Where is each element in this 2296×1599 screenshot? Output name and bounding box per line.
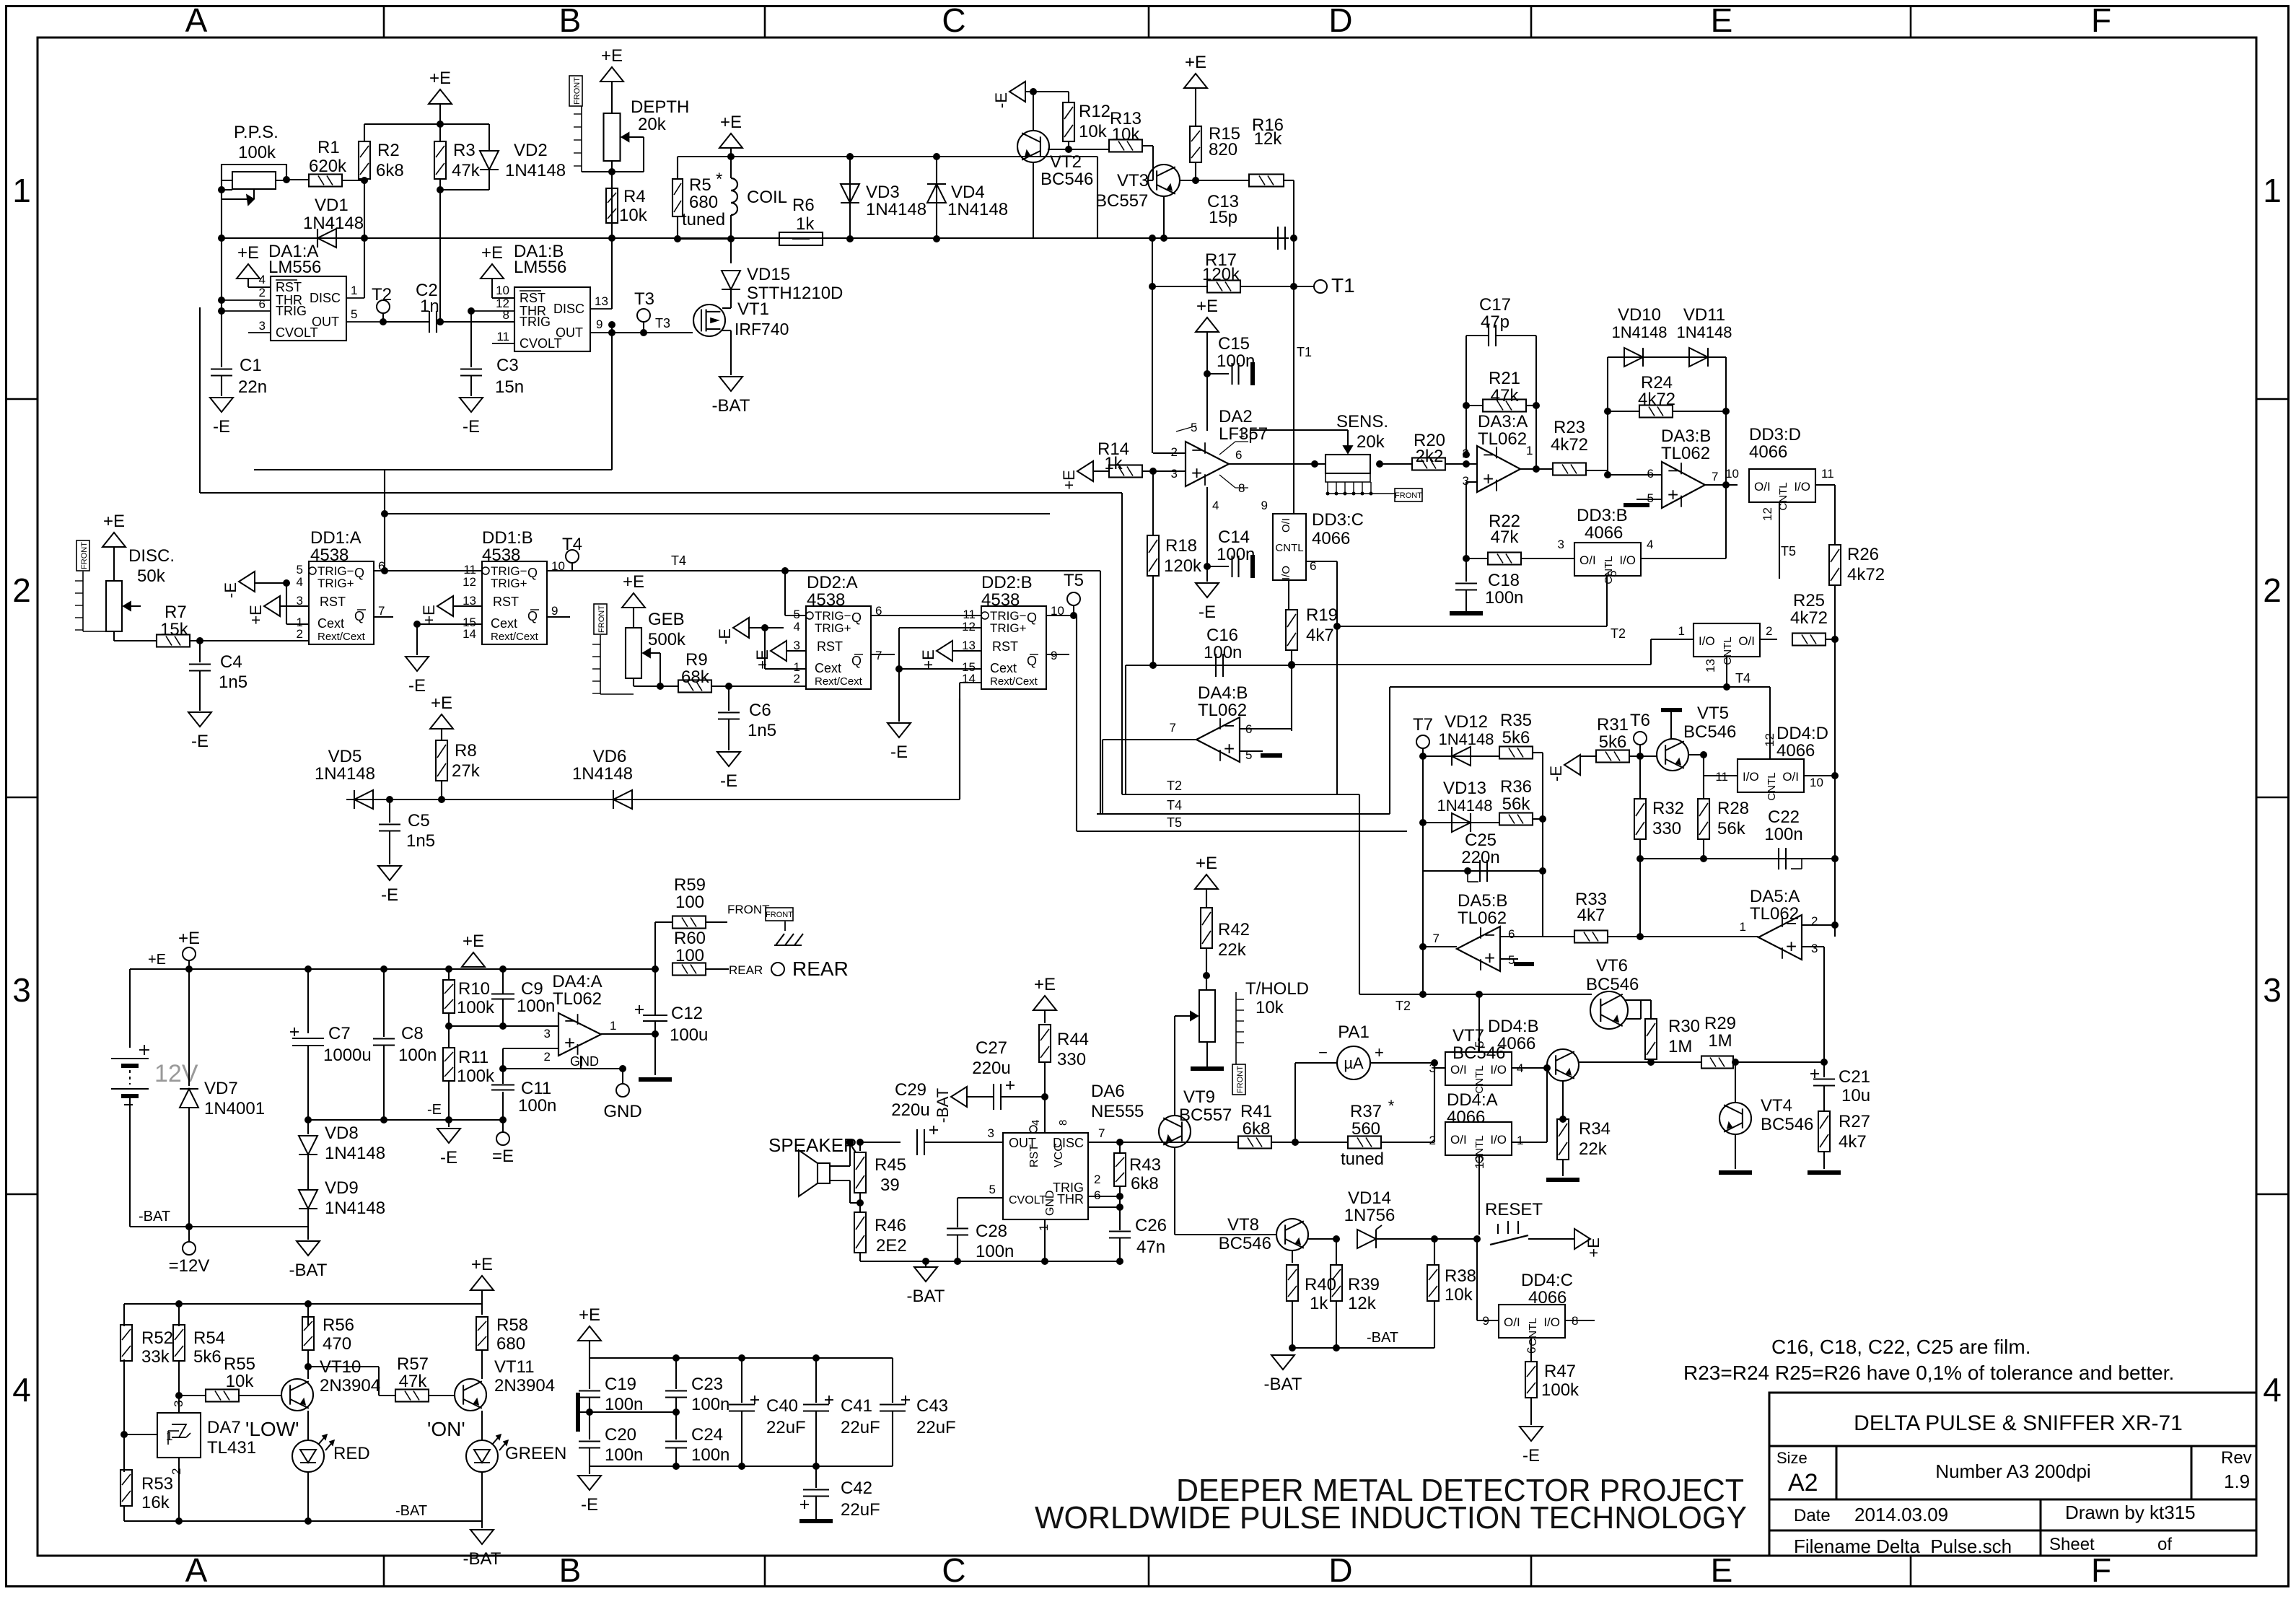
svg-text:T/HOLD: T/HOLD <box>1245 979 1309 999</box>
svg-text:−: − <box>1786 912 1797 934</box>
svg-text:R60: R60 <box>674 929 706 948</box>
svg-text:+E: +E <box>148 952 166 968</box>
svg-text:C19: C19 <box>605 1375 636 1394</box>
svg-text:RST: RST <box>817 639 843 654</box>
svg-text:+E: +E <box>431 693 452 713</box>
svg-text:1N4001: 1N4001 <box>204 1099 265 1118</box>
svg-text:+E: +E <box>753 649 771 670</box>
svg-text:VT7: VT7 <box>1452 1026 1484 1046</box>
svg-text:50k: 50k <box>137 566 166 586</box>
svg-text:100n: 100n <box>398 1046 437 1065</box>
svg-text:Q: Q <box>354 566 364 580</box>
svg-text:4066: 4066 <box>1749 442 1787 462</box>
svg-text:FRONT: FRONT <box>766 911 793 919</box>
svg-text:6: 6 <box>1647 467 1654 481</box>
svg-text:VT6: VT6 <box>1596 956 1628 976</box>
svg-text:R18: R18 <box>1165 536 1197 556</box>
svg-text:4: 4 <box>297 575 303 589</box>
svg-text:+E: +E <box>1034 975 1056 994</box>
svg-text:O/I: O/I <box>1450 1063 1467 1077</box>
svg-text:DA7: DA7 <box>207 1418 241 1437</box>
svg-text:R23=R24 R25=R26 have 0,1% of t: R23=R24 R25=R26 have 0,1% of tolerance a… <box>1683 1362 2174 1384</box>
svg-text:3: 3 <box>988 1126 994 1140</box>
svg-text:R19: R19 <box>1306 605 1338 625</box>
svg-text:VT4: VT4 <box>1761 1096 1792 1116</box>
svg-text:C20: C20 <box>605 1425 636 1445</box>
svg-text:FRONT: FRONT <box>597 605 606 633</box>
svg-text:B: B <box>559 1551 582 1589</box>
svg-text:C24: C24 <box>691 1425 723 1445</box>
svg-text:15n: 15n <box>495 377 524 397</box>
svg-text:R36: R36 <box>1500 777 1532 797</box>
svg-text:RST: RST <box>276 280 302 294</box>
svg-text:O/I: O/I <box>1754 480 1771 494</box>
svg-text:BC557: BC557 <box>1095 191 1148 211</box>
svg-text:TRIG+: TRIG+ <box>317 577 354 590</box>
svg-text:3: 3 <box>259 319 266 333</box>
svg-text:TRIG: TRIG <box>520 315 551 329</box>
svg-text:4k72: 4k72 <box>1551 435 1588 455</box>
svg-text:7: 7 <box>1712 470 1718 483</box>
svg-text:tuned: tuned <box>1341 1149 1384 1169</box>
svg-text:+E: +E <box>1185 53 1206 72</box>
svg-text:C1: C1 <box>240 356 262 375</box>
svg-text:-BAT: -BAT <box>712 396 750 416</box>
svg-text:100n: 100n <box>976 1242 1014 1261</box>
svg-text:CVOLT: CVOLT <box>1009 1194 1046 1206</box>
svg-text:=12V: =12V <box>169 1256 210 1276</box>
svg-text:3: 3 <box>1558 538 1564 551</box>
svg-text:C16, C18, C22, C25 are film.: C16, C18, C22, C25 are film. <box>1771 1336 2031 1358</box>
svg-text:Rext/Cext: Rext/Cext <box>990 675 1038 688</box>
svg-text:VD6: VD6 <box>593 747 627 766</box>
svg-text:Sheet: Sheet <box>2049 1535 2095 1554</box>
svg-text:+: + <box>1484 947 1495 969</box>
svg-text:R58: R58 <box>496 1315 528 1335</box>
svg-text:R37: R37 <box>1350 1102 1382 1121</box>
svg-text:C21: C21 <box>1839 1067 1870 1087</box>
svg-text:RST: RST <box>1028 1144 1040 1168</box>
svg-text:2N3904: 2N3904 <box>494 1376 555 1396</box>
svg-text:C12: C12 <box>671 1004 703 1023</box>
svg-text:1: 1 <box>351 284 357 297</box>
svg-text:T7: T7 <box>1413 715 1433 735</box>
svg-text:1: 1 <box>1238 426 1245 440</box>
svg-text:6: 6 <box>1235 448 1242 462</box>
svg-text:Cext: Cext <box>990 661 1017 675</box>
svg-text:C8: C8 <box>401 1024 424 1043</box>
svg-text:+: + <box>1191 463 1202 484</box>
svg-text:DISC: DISC <box>553 302 584 316</box>
svg-text:4: 4 <box>1647 538 1653 551</box>
svg-text:5: 5 <box>1245 748 1252 762</box>
svg-text:OUT: OUT <box>312 315 339 329</box>
svg-text:C5: C5 <box>408 811 430 831</box>
svg-text:R55: R55 <box>224 1354 255 1374</box>
svg-text:O/I: O/I <box>1450 1133 1467 1147</box>
svg-text:Q: Q <box>1027 654 1037 668</box>
svg-text:DA6: DA6 <box>1091 1082 1125 1101</box>
svg-text:1N4148: 1N4148 <box>947 200 1008 219</box>
svg-text:-E: -E <box>1522 1446 1540 1466</box>
svg-text:O/I: O/I <box>1280 518 1292 533</box>
svg-text:100n: 100n <box>1217 545 1255 564</box>
svg-text:DD4:C: DD4:C <box>1521 1271 1573 1290</box>
svg-text:2: 2 <box>12 571 31 609</box>
svg-text:C: C <box>942 1 965 39</box>
svg-text:µA: µA <box>1344 1054 1364 1072</box>
svg-text:−: − <box>1483 444 1494 465</box>
svg-text:6k8: 6k8 <box>376 161 404 180</box>
svg-text:+: + <box>564 1032 575 1053</box>
svg-text:+E: +E <box>623 572 644 592</box>
svg-text:+E: +E <box>481 243 503 263</box>
svg-text:1: 1 <box>2263 172 2282 209</box>
svg-text:COIL: COIL <box>747 188 787 207</box>
svg-text:R23: R23 <box>1554 418 1585 437</box>
svg-text:I/O: I/O <box>1280 566 1292 580</box>
svg-text:20k: 20k <box>1357 432 1385 452</box>
svg-text:4: 4 <box>259 273 266 286</box>
svg-text:B: B <box>559 1 582 39</box>
svg-text:2: 2 <box>2263 571 2282 609</box>
svg-text:-BAT: -BAT <box>1264 1375 1302 1394</box>
svg-text:1k: 1k <box>1104 454 1123 473</box>
svg-text:100k: 100k <box>1541 1380 1579 1400</box>
svg-text:FRONT: FRONT <box>1236 1066 1245 1093</box>
svg-text:4k7: 4k7 <box>1306 626 1334 645</box>
svg-text:Cext: Cext <box>815 661 841 675</box>
svg-text:8: 8 <box>1057 1120 1069 1126</box>
svg-text:T5: T5 <box>1064 571 1084 590</box>
svg-text:R5: R5 <box>689 175 711 195</box>
svg-text:LM556: LM556 <box>268 258 321 277</box>
svg-text:BC546: BC546 <box>1683 722 1736 742</box>
svg-text:100: 100 <box>675 946 704 965</box>
svg-text:tuned: tuned <box>682 210 725 229</box>
svg-text:-E: -E <box>1199 603 1216 622</box>
svg-text:12k: 12k <box>1254 129 1283 149</box>
svg-text:R56: R56 <box>323 1315 354 1335</box>
svg-text:10: 10 <box>1810 776 1823 789</box>
svg-text:DISC.: DISC. <box>128 546 175 566</box>
svg-text:R1: R1 <box>317 138 340 157</box>
svg-text:4k72: 4k72 <box>1638 390 1675 409</box>
svg-text:Q: Q <box>527 609 538 623</box>
svg-text:VD13: VD13 <box>1443 779 1486 798</box>
svg-text:−: − <box>564 1009 575 1031</box>
svg-text:FRONT: FRONT <box>573 77 582 105</box>
svg-text:C9: C9 <box>521 979 543 999</box>
svg-text:-BAT: -BAT <box>907 1287 945 1306</box>
svg-text:12k: 12k <box>1348 1294 1377 1313</box>
svg-text:10: 10 <box>496 284 509 297</box>
svg-text:'ON': 'ON' <box>427 1418 465 1440</box>
svg-text:-E: -E <box>890 742 908 762</box>
svg-text:9: 9 <box>1261 499 1268 512</box>
svg-text:CNTL: CNTL <box>1473 1065 1486 1093</box>
svg-text:T5: T5 <box>1781 544 1796 558</box>
svg-text:GREEN: GREEN <box>505 1444 566 1463</box>
svg-text:R25: R25 <box>1793 591 1825 610</box>
svg-text:4k7: 4k7 <box>1577 906 1605 925</box>
svg-text:2: 2 <box>1094 1173 1100 1186</box>
svg-text:10k: 10k <box>1112 125 1141 144</box>
svg-text:33k: 33k <box>141 1347 170 1367</box>
svg-text:2: 2 <box>1766 624 1772 638</box>
svg-text:Q: Q <box>851 610 862 625</box>
svg-text:6: 6 <box>1508 927 1515 941</box>
svg-text:C15: C15 <box>1218 334 1250 354</box>
svg-text:15p: 15p <box>1209 208 1237 227</box>
svg-text:68k: 68k <box>681 667 710 687</box>
svg-text:C40: C40 <box>766 1396 798 1416</box>
svg-text:TL431: TL431 <box>207 1438 256 1458</box>
svg-text:BC546: BC546 <box>1040 170 1093 189</box>
svg-text:C28: C28 <box>976 1222 1007 1241</box>
svg-text:E: E <box>1711 1551 1733 1589</box>
svg-text:R2: R2 <box>377 141 400 160</box>
svg-text:14: 14 <box>463 627 476 641</box>
svg-text:Rext/Cext: Rext/Cext <box>815 675 863 688</box>
svg-text:Cext: Cext <box>317 616 344 631</box>
svg-text:C18: C18 <box>1488 571 1520 590</box>
svg-text:T1: T1 <box>1297 345 1312 359</box>
svg-text:TRIG+: TRIG+ <box>491 577 527 590</box>
svg-text:47p: 47p <box>1481 312 1510 332</box>
svg-text:+E: +E <box>178 929 200 948</box>
svg-text:1N4148: 1N4148 <box>866 200 926 219</box>
svg-text:DD2:A: DD2:A <box>807 573 858 592</box>
svg-text:5k6: 5k6 <box>193 1347 222 1367</box>
svg-text:4: 4 <box>2263 1371 2282 1409</box>
svg-text:120k: 120k <box>1164 556 1202 576</box>
svg-text:56k: 56k <box>1717 819 1746 838</box>
svg-text:VD2: VD2 <box>514 141 548 160</box>
svg-text:REAR: REAR <box>792 958 849 980</box>
svg-text:47n: 47n <box>1136 1237 1165 1257</box>
svg-text:47k: 47k <box>399 1372 428 1391</box>
svg-text:VD10: VD10 <box>1618 305 1661 325</box>
svg-text:-E: -E <box>992 92 1010 108</box>
svg-text:C14: C14 <box>1218 527 1250 547</box>
svg-text:Filename Delta_Pulse.sch: Filename Delta_Pulse.sch <box>1794 1536 2012 1557</box>
svg-text:A: A <box>185 1 208 39</box>
svg-text:3: 3 <box>1171 467 1178 481</box>
svg-text:R57: R57 <box>397 1354 429 1374</box>
svg-text:O/I: O/I <box>1738 634 1755 648</box>
svg-text:+E: +E <box>471 1255 493 1274</box>
svg-text:1N756: 1N756 <box>1344 1206 1395 1225</box>
svg-text:2N3904: 2N3904 <box>320 1376 380 1396</box>
svg-text:+E: +E <box>579 1305 600 1325</box>
svg-text:2: 2 <box>1429 1134 1436 1147</box>
svg-text:2: 2 <box>794 672 800 685</box>
svg-text:C4: C4 <box>220 652 242 672</box>
svg-text:2k2: 2k2 <box>1416 447 1444 466</box>
svg-text:'LOW': 'LOW' <box>245 1418 299 1440</box>
svg-text:1: 1 <box>1678 624 1685 638</box>
svg-text:CNTL: CNTL <box>1766 772 1778 800</box>
svg-text:22uF: 22uF <box>841 1418 880 1437</box>
svg-text:T4: T4 <box>671 553 686 568</box>
svg-text:8: 8 <box>503 308 509 322</box>
svg-text:R28: R28 <box>1717 799 1749 818</box>
svg-text:10k: 10k <box>1256 998 1284 1017</box>
svg-text:7: 7 <box>378 604 385 618</box>
svg-text:1n: 1n <box>420 297 439 316</box>
svg-text:DA4:B: DA4:B <box>1198 683 1248 703</box>
svg-text:+E: +E <box>1196 297 1218 316</box>
svg-text:10: 10 <box>1725 467 1739 481</box>
svg-text:DA3:A: DA3:A <box>1478 412 1528 431</box>
svg-text:Number A3 200dpi: Number A3 200dpi <box>1935 1460 2090 1482</box>
svg-text:R29: R29 <box>1704 1014 1736 1033</box>
svg-text:C11: C11 <box>521 1079 551 1098</box>
svg-text:VT11: VT11 <box>494 1357 535 1377</box>
svg-text:R10: R10 <box>458 979 490 999</box>
svg-text:9: 9 <box>596 317 603 331</box>
svg-text:620k: 620k <box>309 157 347 176</box>
svg-text:1N4148: 1N4148 <box>1676 323 1732 341</box>
svg-text:CNTL: CNTL <box>1527 1318 1539 1346</box>
svg-text:100n: 100n <box>1217 351 1255 371</box>
svg-text:Size: Size <box>1776 1449 1808 1467</box>
svg-text:Rev: Rev <box>2221 1448 2252 1468</box>
svg-text:7: 7 <box>1170 721 1176 735</box>
svg-text:C42: C42 <box>841 1478 872 1498</box>
svg-text:+: + <box>1375 1043 1384 1061</box>
svg-text:I/O: I/O <box>1490 1133 1507 1147</box>
svg-text:22uF: 22uF <box>766 1418 806 1437</box>
svg-text:-E: -E <box>222 582 240 598</box>
svg-text:I/O: I/O <box>1794 480 1810 494</box>
svg-text:−: − <box>1191 439 1202 460</box>
svg-text:R43: R43 <box>1129 1155 1161 1175</box>
svg-text:T4: T4 <box>562 535 582 554</box>
svg-text:1n5: 1n5 <box>748 721 776 740</box>
svg-text:-E: -E <box>463 417 480 437</box>
svg-text:+E: +E <box>919 649 937 670</box>
svg-text:7: 7 <box>875 649 882 662</box>
svg-text:9: 9 <box>551 604 558 618</box>
svg-text:GND: GND <box>570 1054 599 1069</box>
svg-text:VT2: VT2 <box>1050 152 1082 172</box>
svg-text:-BAT: -BAT <box>289 1261 328 1280</box>
svg-text:56k: 56k <box>1502 794 1531 814</box>
svg-text:DELTA PULSE & SNIFFER XR-71: DELTA PULSE & SNIFFER XR-71 <box>1854 1411 2183 1435</box>
svg-text:22uF: 22uF <box>916 1418 956 1437</box>
svg-text:+E: +E <box>1060 470 1078 490</box>
svg-text:R8: R8 <box>455 741 477 761</box>
svg-text:DA3:B: DA3:B <box>1661 426 1711 446</box>
svg-text:4k7: 4k7 <box>1839 1132 1867 1152</box>
svg-text:−: − <box>1668 460 1678 481</box>
svg-text:4: 4 <box>1030 1120 1042 1126</box>
svg-text:1: 1 <box>1517 1134 1523 1147</box>
svg-text:Drawn by kt315: Drawn by kt315 <box>2065 1502 2196 1523</box>
svg-text:C29: C29 <box>895 1080 926 1100</box>
svg-text:TRIG+: TRIG+ <box>815 621 851 635</box>
svg-text:DD4:A: DD4:A <box>1447 1090 1498 1110</box>
svg-text:4066: 4066 <box>1447 1108 1485 1127</box>
svg-text:DA5:A: DA5:A <box>1750 887 1800 906</box>
svg-text:1N4148: 1N4148 <box>315 764 375 784</box>
svg-text:R52: R52 <box>141 1328 173 1348</box>
svg-text:220u: 220u <box>972 1059 1010 1078</box>
svg-text:1N4148: 1N4148 <box>1611 323 1667 341</box>
svg-text:R9: R9 <box>685 650 708 670</box>
svg-text:I/O: I/O <box>1543 1315 1560 1329</box>
svg-text:I/O: I/O <box>1619 553 1636 567</box>
svg-text:VD14: VD14 <box>1348 1188 1391 1208</box>
svg-text:-E: -E <box>408 676 426 696</box>
svg-text:R41: R41 <box>1240 1102 1272 1121</box>
svg-text:2014.03.09: 2014.03.09 <box>1854 1504 1948 1525</box>
svg-text:100n: 100n <box>605 1445 643 1465</box>
svg-text:-E: -E <box>716 628 734 644</box>
svg-text:R11: R11 <box>458 1048 488 1067</box>
svg-text:VT8: VT8 <box>1227 1215 1259 1235</box>
svg-text:16k: 16k <box>141 1493 170 1512</box>
svg-text:11: 11 <box>496 330 509 343</box>
svg-text:C25: C25 <box>1465 831 1497 850</box>
svg-text:O/I: O/I <box>1579 553 1596 567</box>
svg-text:R45: R45 <box>875 1155 906 1175</box>
svg-text:100n: 100n <box>1485 588 1523 608</box>
svg-text:C16: C16 <box>1206 626 1238 645</box>
svg-text:SENS.: SENS. <box>1336 412 1388 431</box>
svg-text:DA5:B: DA5:B <box>1458 891 1507 911</box>
svg-text:100k: 100k <box>457 998 495 1017</box>
svg-text:T4: T4 <box>1735 671 1751 685</box>
svg-text:VD7: VD7 <box>204 1079 238 1098</box>
svg-text:-E: -E <box>381 885 398 905</box>
svg-text:9: 9 <box>1051 649 1057 662</box>
svg-text:NE555: NE555 <box>1091 1102 1144 1121</box>
svg-text:+: + <box>1483 468 1494 489</box>
svg-text:−: − <box>1318 1043 1328 1061</box>
svg-text:RST: RST <box>320 595 346 609</box>
svg-text:13: 13 <box>595 294 608 308</box>
svg-text:47k: 47k <box>1491 527 1520 547</box>
svg-text:1M: 1M <box>1668 1037 1692 1056</box>
svg-text:4066: 4066 <box>1312 529 1350 548</box>
svg-text:-E: -E <box>581 1495 598 1515</box>
svg-text:1: 1 <box>12 172 31 209</box>
svg-text:R34: R34 <box>1579 1119 1611 1139</box>
svg-text:VD9: VD9 <box>325 1178 359 1198</box>
svg-text:4066: 4066 <box>1776 741 1815 761</box>
svg-text:-BAT: -BAT <box>1367 1330 1398 1346</box>
svg-text:*: * <box>716 170 722 189</box>
svg-text:I/O: I/O <box>1699 634 1715 648</box>
svg-text:O/I: O/I <box>1782 770 1799 784</box>
svg-text:R53: R53 <box>141 1474 173 1494</box>
svg-text:+E: +E <box>1585 1237 1603 1258</box>
svg-text:100n: 100n <box>517 996 555 1016</box>
svg-text:100n: 100n <box>691 1395 729 1414</box>
svg-text:T2: T2 <box>1611 626 1626 641</box>
svg-text:T2: T2 <box>1167 779 1182 793</box>
svg-text:-E: -E <box>720 771 737 791</box>
svg-text:DD1:A: DD1:A <box>310 528 362 548</box>
svg-text:T4: T4 <box>1167 798 1182 812</box>
svg-text:E: E <box>1711 1 1733 39</box>
svg-text:−: − <box>1224 714 1235 736</box>
svg-text:D: D <box>1328 1551 1352 1589</box>
svg-text:330: 330 <box>1652 819 1681 838</box>
